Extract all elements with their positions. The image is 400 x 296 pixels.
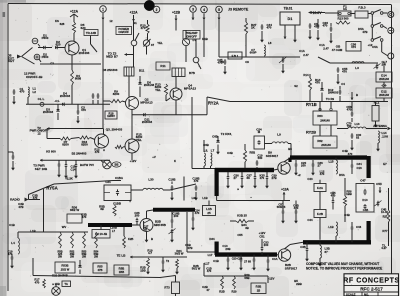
svg-text:2N4148: 2N4148 (379, 77, 389, 81)
label C10A (115, 176, 124, 180)
transistor Q8 2N4403 (95, 129, 109, 149)
svg-text:T2: T2 (166, 259, 170, 263)
relay RY1B contacts (319, 102, 332, 112)
label +13.6V (308, 11, 325, 15)
svg-text:NOTICE. TO IMPROVE PRODUCT: NOTICE. TO IMPROVE PRODUCT PERFORMANCE (306, 267, 382, 271)
capacitor C36 27 (226, 172, 239, 189)
svg-text:BATW 70V: BATW 70V (80, 163, 94, 167)
svg-text:2W: 2W (58, 254, 62, 258)
title block frame (344, 274, 399, 296)
svg-text:R3B: R3B (256, 285, 262, 289)
wire driver collector (147, 210, 154, 219)
svg-text:5: 5 (218, 8, 220, 12)
capacitor C30 82 (350, 133, 361, 151)
svg-text:27 68: 27 68 (244, 260, 251, 264)
label D1 P600 (42, 34, 49, 41)
wire emitters join (132, 100, 207, 115)
svg-text:WV: WV (62, 225, 67, 229)
svg-text:2N4148: 2N4148 (320, 119, 330, 123)
transistor Q6 SRF3817 bottom (277, 245, 291, 262)
transistor Q3 (123, 139, 139, 160)
fuse F1 3A (325, 5, 351, 17)
trimmer C17 2-4 (374, 60, 388, 69)
svg-text:RY2B: RY2B (306, 131, 316, 135)
svg-text:470: 470 (194, 179, 199, 183)
scan smudge top left (0, 0, 26, 296)
wire to antenna bus (383, 98, 385, 102)
svg-text:B5: B5 (288, 147, 292, 151)
svg-text:470: 470 (347, 108, 352, 112)
svg-text:L8: L8 (268, 41, 272, 45)
wire RY2A riser (206, 97, 208, 115)
svg-text:K3B 25: K3B 25 (237, 214, 247, 218)
capacitor C8 (308, 22, 319, 40)
note component values (306, 262, 382, 271)
capacitor C24 1M box (254, 128, 265, 150)
svg-text:R5A: R5A (339, 173, 345, 177)
svg-text:1BB: 1BB (346, 192, 352, 196)
resistor R53 560/2W (82, 232, 87, 258)
label +13A (281, 188, 289, 201)
resistor R27 1K (244, 18, 256, 57)
svg-text:L4: L4 (11, 241, 15, 245)
svg-text:B7B: B7B (189, 71, 195, 75)
capacitor C68 (212, 135, 220, 155)
capacitor C34r (351, 160, 362, 174)
resistor R13 560 (336, 17, 350, 25)
resistor K28 (123, 227, 134, 248)
resistor R28b (219, 276, 224, 294)
label +12V bottom (268, 276, 275, 283)
label +12A switch (129, 11, 138, 22)
capacitor C49 (339, 86, 342, 102)
block box C47 (356, 179, 374, 213)
diode D1 (38, 46, 52, 50)
label D5 2N4403 (72, 152, 87, 156)
shield bar driver collector (153, 208, 195, 212)
capacitor C23b 27 (226, 255, 230, 271)
svg-text:2N4148: 2N4148 (379, 93, 389, 97)
relay contacts K1b (371, 15, 387, 29)
svg-text:1: 1 (102, 7, 104, 11)
relay contacts K1a (368, 10, 388, 15)
transistor D7 indicator (182, 30, 196, 57)
svg-text:C55: C55 (237, 233, 243, 237)
svg-text:2N4003: 2N4003 (60, 94, 71, 98)
label R12 470 (94, 148, 100, 155)
svg-text:R5B: R5B (119, 267, 125, 271)
label C10B (113, 202, 121, 206)
inductor L13 (337, 122, 366, 129)
label D21 (52, 274, 68, 278)
label Q7 MRF458 (154, 220, 166, 227)
svg-text:+12B: +12B (172, 11, 181, 15)
wire main left bus (26, 97, 110, 104)
svg-text:B2 2N4403: B2 2N4403 (72, 152, 87, 156)
trimmer C23 10-40 (169, 229, 176, 243)
svg-text:200: 200 (301, 164, 306, 168)
capacitor C19 470 (7, 250, 13, 269)
capacitor C45 470 (330, 191, 336, 210)
svg-text:P600: P600 (42, 55, 49, 59)
svg-text:D34: D34 (209, 237, 215, 241)
transistor Q7 MRF458 driver (132, 219, 153, 232)
svg-text:K2B: K2B (128, 237, 133, 241)
capacitor C70 (346, 122, 352, 129)
wire into PA top (192, 97, 215, 169)
svg-text:56/1 W: 56/1 W (192, 267, 201, 271)
svg-text:KS: KS (55, 19, 59, 23)
wire right column (383, 188, 390, 246)
terminal block TB-138 (84, 30, 98, 36)
svg-text:C6B: C6B (212, 135, 218, 139)
ferrite F2A box (314, 180, 326, 192)
svg-text:87: 87 (325, 250, 329, 254)
svg-text:P600: P600 (42, 36, 49, 40)
label Q3 2N4403 (106, 128, 123, 132)
antenna output (366, 124, 391, 130)
capacitor box C10 (104, 185, 131, 201)
svg-text:C44: C44 (307, 218, 313, 222)
filter FL1 (372, 101, 380, 128)
capacitor C driver (161, 257, 170, 273)
svg-text:1BB: 1BB (140, 268, 145, 272)
svg-text:1BB: 1BB (119, 270, 124, 274)
resistor box R55 (93, 263, 107, 273)
svg-text:J3 REMOTE: J3 REMOTE (228, 8, 249, 12)
wire T2 PWR ON/OFF 12 (30, 126, 104, 135)
label R26 100 (140, 266, 145, 273)
meter M1 (52, 284, 61, 295)
lamp box B1 150 (52, 281, 70, 287)
svg-text:A: A (103, 148, 105, 152)
svg-text:47B: 47B (187, 246, 192, 250)
diode box D14 2N4148 (376, 72, 392, 82)
svg-text:F.B.1: F.B.1 (232, 54, 239, 58)
relay RY2B contacts (313, 125, 337, 148)
capacitor C26b (244, 255, 256, 271)
resistor R10 470 (140, 20, 149, 34)
svg-text:25: 25 (207, 211, 211, 215)
svg-text:Q3. 2N4403: Q3. 2N4403 (106, 128, 123, 132)
shield bar bottom-right horizontal (290, 242, 371, 244)
resistor box R56b (114, 265, 129, 275)
capacitor C41 470 (205, 262, 212, 274)
label D8 2N4403 (103, 68, 118, 72)
svg-text:R63: R63 (317, 114, 323, 118)
svg-text:47: 47 (206, 288, 210, 292)
svg-text:C1BA: C1BA (115, 176, 124, 180)
svg-text:470: 470 (195, 211, 200, 215)
capacitor C56 470 (329, 23, 333, 44)
svg-text:D8 2N4403: D8 2N4403 (103, 68, 118, 72)
wire emitter bus (40, 55, 101, 64)
svg-text:D13: D13 (362, 198, 368, 202)
oval marker (112, 162, 121, 167)
svg-text:RY2A: RY2A (208, 101, 219, 106)
svg-text:COMPONENT VALUES MAY CHANGE: COMPONENT VALUES MAY CHANGE, WITHOUT (306, 262, 379, 266)
title scale row (346, 293, 369, 296)
svg-text:MED B7: MED B7 (106, 54, 118, 58)
svg-text:47B: 47B (98, 268, 103, 272)
svg-text:L7: L7 (112, 229, 116, 233)
shield bar bottom-left horizontal (215, 252, 277, 256)
node minus terminal (32, 38, 38, 44)
shield bar bottom-right vertical (367, 221, 371, 244)
svg-text:B: B (356, 93, 358, 97)
svg-text:C47: C47 (360, 179, 366, 183)
wire Q1 base (64, 47, 66, 49)
wire driver emitter (145, 232, 149, 243)
title RF CONCEPTS (343, 278, 399, 285)
svg-text:MPSA13: MPSA13 (140, 100, 153, 104)
capacitor C3A (266, 255, 278, 272)
svg-text:L15: L15 (328, 160, 333, 164)
resistor R19 4.7 (146, 249, 153, 275)
svg-text:+12A: +12A (129, 11, 138, 15)
ferrite F2B box (314, 210, 326, 240)
ferrite bead F.B.3 (351, 6, 368, 19)
wire D1 box leads (284, 25, 297, 43)
svg-text:K: K (174, 159, 176, 163)
svg-text:27: 27 (234, 176, 238, 180)
inductor L8 L7 (204, 149, 215, 169)
svg-text:10-40: 10-40 (381, 210, 388, 214)
resistor R7 8200 (60, 137, 71, 147)
svg-text:ON/OFF: ON/OFF (118, 30, 129, 34)
svg-text:R29: R29 (232, 290, 237, 294)
svg-text:C3B: C3B (227, 151, 233, 155)
resistor box R30 10 (251, 283, 266, 294)
wire S1 down bus (133, 46, 135, 67)
svg-text:RY1B: RY1B (306, 102, 317, 107)
capacitor C39 (265, 172, 277, 189)
svg-text:470: 470 (81, 108, 86, 112)
svg-text:F.2B: F.2B (317, 212, 323, 216)
label C7 600P (250, 48, 257, 55)
svg-text:47 OHM: 47 OHM (332, 48, 343, 52)
svg-text:4: 4 (203, 8, 205, 12)
switch S2 box PREAMP ON/OFF (183, 31, 200, 40)
wire driver bias row (145, 256, 187, 258)
wire L32 node (170, 177, 197, 201)
svg-text:C46: C46 (356, 225, 362, 229)
svg-text:L1B: L1B (30, 229, 35, 233)
label L16B L7 (110, 226, 117, 233)
svg-text:C9: C9 (245, 60, 249, 64)
svg-text:25/2 W: 25/2 W (61, 267, 70, 271)
svg-text:3: 3 (192, 7, 194, 11)
svg-text:BB: BB (114, 163, 118, 167)
label R5 600 (46, 150, 56, 154)
relay RY1B box (313, 111, 337, 125)
trimmer C9 (279, 57, 287, 74)
svg-text:F.2A: F.2A (317, 186, 324, 190)
capacitor C24 470 (191, 209, 200, 231)
bias bus wire (40, 159, 110, 162)
svg-text:C5D: C5D (376, 182, 382, 186)
svg-text:RT3: RT3 (164, 286, 170, 290)
svg-text:C34: C34 (105, 180, 111, 184)
svg-text:.1UH: .1UH (382, 135, 388, 139)
jack J4 (382, 52, 394, 59)
svg-text:47B: 47B (18, 205, 23, 209)
jack J2 minus (388, 28, 394, 34)
svg-text:C43: C43 (307, 177, 313, 181)
svg-text:SCALE: SCALE (346, 293, 356, 296)
svg-text:470: 470 (95, 150, 100, 154)
svg-text:36/2 W: 36/2 W (70, 208, 80, 212)
resistor R50 (99, 205, 116, 217)
pin 2 (153, 6, 160, 13)
svg-text:R2B: R2B (219, 290, 224, 294)
svg-text:R11: R11 (160, 64, 166, 68)
svg-text:B: B (151, 237, 153, 241)
label D2 P600 (42, 53, 49, 60)
svg-text:470: 470 (20, 90, 25, 94)
inductor L3 (352, 62, 364, 70)
shield bar top-right horizontal (290, 158, 367, 162)
wire bottom long bus (33, 258, 176, 278)
label S1 (133, 21, 137, 25)
svg-text:2W: 2W (82, 254, 86, 258)
svg-text:2.47: 2.47 (303, 53, 309, 57)
svg-text:2N4148: 2N4148 (144, 83, 155, 87)
capacitor C16B 200 (171, 210, 180, 228)
svg-text:47B: 47B (362, 30, 367, 34)
label D2 620 (56, 40, 61, 47)
svg-text:TO R9: TO R9 (326, 97, 335, 101)
label J3 REMOTE (228, 8, 249, 12)
capacitor C12 (57, 160, 61, 177)
svg-text:TB.01: TB.01 (284, 7, 293, 11)
svg-text:2N4003: 2N4003 (142, 120, 153, 124)
shield bar top-left horizontal (215, 168, 274, 172)
capacitor C11 left border (8, 152, 15, 171)
wire RY1 to Q2 (129, 76, 132, 139)
diode D12 2N4003 (320, 82, 338, 102)
switch contact S2 (176, 21, 201, 69)
svg-text:68: 68 (247, 176, 251, 180)
trimmer box TM 10-40 (92, 225, 110, 238)
label TE L0 row (117, 254, 145, 259)
resistor box R21 47OHM (332, 42, 361, 53)
svg-text:L17: L17 (205, 262, 210, 266)
wire y63 bus (318, 57, 378, 63)
relay coil RY1 (124, 67, 145, 76)
resistor R56 100 (343, 178, 352, 222)
svg-text:MRF45B: MRF45B (154, 223, 166, 227)
thermistor RT2 (164, 276, 179, 296)
svg-text:-C4-: -C4- (54, 99, 59, 103)
label C50 (376, 182, 382, 193)
relay contacts K1c (371, 28, 383, 53)
capacitor C38 470 (29, 194, 41, 201)
transistor Q4 MPSA13 (170, 77, 196, 101)
resistor R13 8200 YEL (155, 83, 170, 102)
wire RY5A diagonal (29, 177, 122, 195)
bus from pin 1 (102, 20, 104, 129)
shield bar top-right vertical (367, 156, 371, 178)
svg-text:RFC 2-517: RFC 2-517 (360, 286, 383, 291)
pin 4 (201, 6, 208, 20)
svg-text:C4B: C4B (363, 208, 368, 212)
switch S1 box POWER ON/OFF (116, 27, 132, 35)
svg-text:470: 470 (348, 152, 353, 156)
svg-text:F.B.3: F.B.3 (358, 6, 365, 10)
inductor L16 bottom (328, 222, 337, 242)
svg-text:TR-13B: TR-13B (86, 31, 96, 35)
svg-text:4.27: 4.27 (381, 246, 387, 250)
svg-text:+2: +2 (297, 173, 301, 177)
pin 1 (100, 6, 107, 20)
ferrite bead F.B.1 (228, 52, 242, 59)
resistor R52 460/2W (70, 232, 75, 258)
test point TP1 (101, 160, 111, 169)
capacitor C23 470 (316, 19, 328, 41)
svg-text:L7: L7 (211, 149, 215, 153)
wire bottom bus (18, 216, 88, 232)
svg-text:2N4003: 2N4003 (43, 110, 54, 114)
label RY2B (306, 131, 316, 135)
label RY1B (306, 102, 317, 107)
wire base link (47, 129, 95, 140)
svg-text:1M/5V: 1M/5V (107, 114, 115, 118)
resistor R36 36/2W box (67, 206, 82, 224)
arrow to bus (351, 92, 354, 100)
svg-text:L1B: L1B (328, 225, 333, 229)
capacitor C33 200 (261, 239, 269, 255)
resistor R15 8200 (115, 133, 143, 149)
label Q5 SRF3817 (266, 151, 279, 158)
svg-text:RADIO: RADIO (10, 198, 20, 202)
svg-text:C3B: C3B (300, 245, 305, 249)
transistor Q1 2N4403 (65, 33, 79, 55)
label CL L (38, 97, 45, 101)
svg-text:NO.: NO. (364, 293, 369, 296)
resistor R29 (232, 276, 237, 294)
label R28 56/1W (192, 264, 201, 271)
svg-text:C1B: C1B (9, 223, 15, 227)
svg-text:600P: 600P (250, 51, 257, 55)
shield bar driver base (88, 223, 132, 227)
resistor R17 470 (34, 278, 45, 288)
svg-text:500/25: 500/25 (277, 205, 286, 209)
svg-text:SRF3817: SRF3817 (285, 266, 298, 270)
wire TB to switch (91, 36, 98, 53)
svg-text:a 15B: a 15B (52, 282, 60, 286)
svg-text:C16: C16 (357, 166, 363, 170)
svg-text:+12A: +12A (70, 10, 79, 14)
svg-text:470: 470 (320, 172, 325, 176)
wire RY5A drop (43, 189, 45, 216)
transistor Q2 MPSA13 (122, 97, 153, 110)
capacitor C58 470 (346, 102, 353, 123)
capacitor C3 470 (76, 104, 86, 123)
svg-text:L32: L32 (192, 196, 197, 200)
capacitor C16B (168, 178, 175, 201)
diode D11 2N4003 (142, 113, 153, 124)
svg-text:470: 470 (207, 269, 212, 273)
svg-text:C6: C6 (220, 60, 224, 64)
inductor L9 (265, 133, 292, 144)
svg-text:620: 620 (56, 43, 61, 47)
label TO PWR SET 160 (33, 164, 48, 172)
label C4 node (381, 62, 387, 88)
svg-text:82: 82 (356, 136, 360, 140)
svg-text:C3A: C3A (272, 257, 278, 261)
label C3 (49, 62, 55, 66)
